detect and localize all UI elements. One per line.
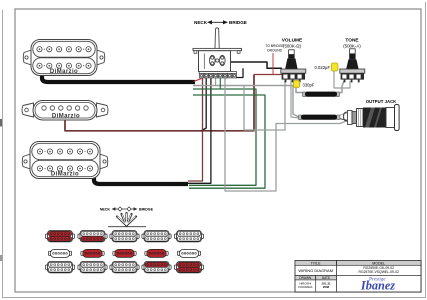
svg-text:TITLE: TITLE [311,262,321,266]
svg-text:WIRING DIAGRAM: WIRING DIAGRAM [298,268,333,273]
svg-text:DRAWN: DRAWN [299,276,312,280]
svg-text:330pF: 330pF [303,83,315,88]
svg-text:NECK: NECK [194,20,208,25]
svg-text:DiMarzio: DiMarzio [51,172,79,178]
svg-text:NECK: NECK [100,208,111,212]
svg-text:BRIDGE: BRIDGE [229,20,247,25]
svg-text:BRIDGE: BRIDGE [139,208,154,212]
svg-text:(500K-Ω): (500K-Ω) [283,44,301,49]
svg-text:DiMarzio: DiMarzio [52,114,80,120]
svg-text:GROUND: GROUND [267,49,283,53]
svg-text:Ibanez: Ibanez [360,279,395,293]
svg-text:RG2570E-VSQWEL-09-02: RG2570E-VSQWEL-09-02 [359,270,399,274]
svg-text:TO BRIDGE: TO BRIDGE [265,44,284,48]
svg-text:DiMarzio: DiMarzio [50,69,78,75]
svg-text:DATE: DATE [322,276,330,280]
svg-text:0.022μF: 0.022μF [315,65,331,70]
svg-text:RG2550E-GK-09-02: RG2550E-GK-09-02 [363,266,394,270]
svg-text:OUTPUT JACK: OUTPUT JACK [366,99,397,104]
svg-text:FUJIWARA: FUJIWARA [298,285,312,289]
svg-text:2008: 2008 [323,285,330,289]
svg-text:(500K-A): (500K-A) [343,44,361,49]
